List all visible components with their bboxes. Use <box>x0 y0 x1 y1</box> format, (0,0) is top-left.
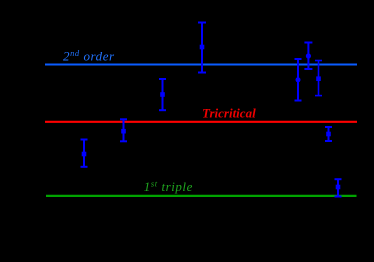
data point P8 error bar <box>325 127 332 141</box>
data point P3 error bar <box>159 79 166 110</box>
data point P9 error bar <box>335 179 342 196</box>
data point P2 error bar <box>120 119 127 141</box>
svg-text:Tricritical: Tricritical <box>202 106 256 121</box>
data point P1 error bar <box>81 140 88 167</box>
2nd order line <box>45 64 357 66</box>
data point P4 error bar <box>198 23 206 73</box>
tricritical line <box>45 121 357 123</box>
data point P5 error bar <box>295 59 302 101</box>
data point P6 error bar <box>304 43 312 70</box>
1st triple line <box>46 195 357 197</box>
data point P7 error bar <box>315 61 322 96</box>
